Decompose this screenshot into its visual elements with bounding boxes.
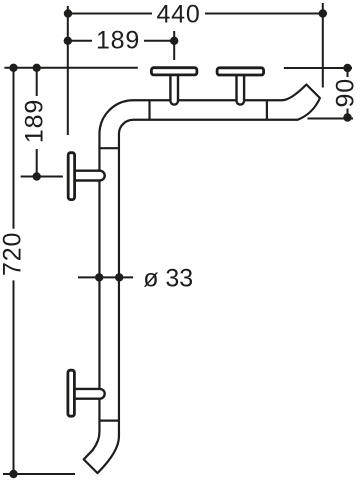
svg-text:440: 440 [156, 0, 200, 28]
svg-text:189: 189 [96, 27, 140, 55]
svg-text:ø 33: ø 33 [143, 265, 193, 293]
svg-text:720: 720 [0, 232, 27, 276]
svg-text:90: 90 [332, 78, 360, 107]
svg-text:189: 189 [21, 99, 49, 143]
